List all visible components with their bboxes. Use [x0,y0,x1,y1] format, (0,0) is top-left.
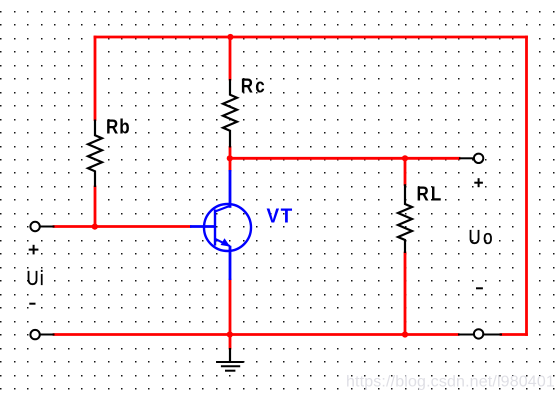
svg-text:Rc: Rc [241,74,267,97]
svg-text:Rb: Rb [106,115,131,138]
svg-text:https://blog.csdn.net/l980401: https://blog.csdn.net/l980401 [346,373,555,390]
svg-text:Ui: Ui [27,266,45,289]
svg-text:RL: RL [417,182,444,205]
svg-text:Uo: Uo [469,226,495,249]
svg-text:VT: VT [267,205,294,228]
